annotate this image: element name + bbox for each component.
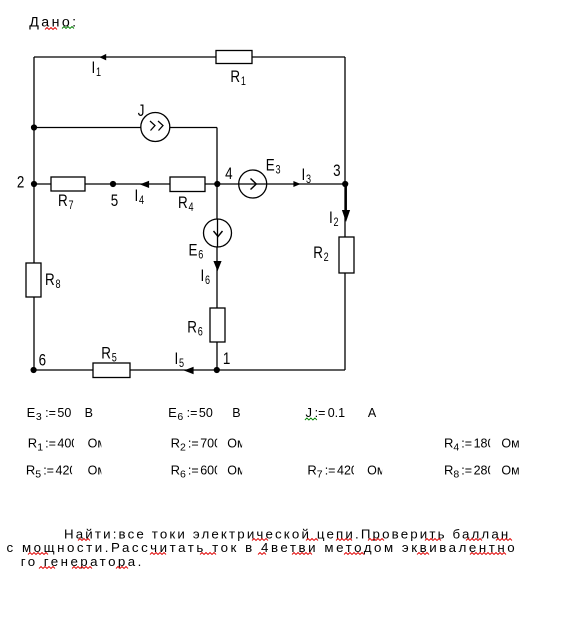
svg-text:R: R	[444, 463, 453, 478]
svg-text:5: 5	[179, 358, 184, 370]
svg-text:R: R	[187, 318, 197, 337]
node 1 junction dot	[214, 367, 220, 373]
svg-text::=: :=	[187, 406, 198, 420]
svg-text:1: 1	[223, 350, 230, 369]
resistor R4	[170, 177, 205, 214]
value R7 := 420 Ом	[307, 463, 392, 481]
svg-text:R: R	[28, 436, 37, 451]
svg-text:7: 7	[68, 200, 73, 212]
svg-text:6: 6	[198, 250, 203, 262]
svg-text::=: :=	[43, 464, 54, 478]
svg-text:R: R	[45, 271, 55, 290]
text "Дано:"	[29, 15, 78, 31]
svg-text:R: R	[178, 194, 188, 213]
wire J-branch horizontal	[34, 127, 217, 129]
wire J-branch vertical down to node 4	[216, 128, 218, 185]
svg-text::=: :=	[45, 406, 56, 420]
svg-text:1: 1	[241, 76, 246, 88]
value R2 := 700 Ом	[171, 436, 253, 454]
spellcheck squiggles on paragraph	[28, 539, 512, 569]
node 2 junction dot	[31, 181, 37, 187]
svg-text:1: 1	[96, 67, 101, 79]
current arrow I5	[175, 349, 194, 374]
svg-text:3: 3	[276, 165, 281, 177]
svg-text:0.1: 0.1	[328, 406, 345, 420]
svg-text:I: I	[329, 209, 333, 228]
svg-text::=: :=	[315, 406, 326, 420]
svg-text:R: R	[230, 68, 240, 87]
value R4 := 180 Ом	[444, 436, 529, 454]
svg-text:А: А	[368, 406, 377, 420]
svg-text:В: В	[85, 406, 93, 420]
value R5 := 420 Ом	[26, 463, 111, 481]
node label 2	[17, 173, 24, 192]
wire middle (node 2 - node 5 - node 4 - node 3)	[34, 183, 345, 185]
svg-text:с мощности.Рассчитать ток в 4в: с мощности.Рассчитать ток в 4ветви метод…	[7, 540, 518, 555]
current source J	[138, 102, 170, 142]
svg-text:2: 2	[180, 442, 186, 454]
svg-text:I: I	[92, 58, 96, 77]
node label 1	[223, 350, 230, 369]
svg-text::=: :=	[461, 437, 472, 451]
resistor R1	[216, 51, 252, 89]
wire E6 branch (node 4 down to node 1)	[216, 184, 218, 370]
value E6 := 50 В	[168, 405, 241, 423]
svg-text:I: I	[135, 186, 139, 205]
svg-text:R: R	[58, 192, 68, 211]
node label 4	[225, 165, 233, 184]
svg-text::=: :=	[461, 464, 472, 478]
svg-text:I: I	[201, 267, 205, 286]
current arrow I4	[135, 181, 150, 207]
current arrow I2 (bold)	[329, 184, 350, 229]
svg-text:1: 1	[37, 442, 43, 454]
resistor R6	[187, 308, 225, 342]
svg-text:3: 3	[333, 161, 340, 180]
svg-text:E: E	[168, 405, 177, 420]
value R1 := 400 Ом	[28, 436, 112, 454]
svg-text:4: 4	[453, 442, 459, 454]
node 5 junction dot	[110, 181, 116, 187]
node 6 junction dot	[30, 367, 36, 373]
svg-text:3: 3	[306, 174, 311, 186]
svg-text:4: 4	[188, 202, 193, 214]
svg-text:R: R	[171, 463, 180, 478]
svg-text:2: 2	[334, 217, 339, 229]
svg-text:6: 6	[180, 469, 186, 481]
svg-text:4: 4	[225, 165, 233, 184]
svg-text::=: :=	[45, 437, 56, 451]
svg-text::=: :=	[188, 464, 199, 478]
svg-text:3: 3	[36, 411, 42, 423]
svg-text:6: 6	[198, 326, 203, 338]
value R6 := 600 Ом	[171, 463, 253, 481]
value E3 := 50 В	[27, 405, 93, 423]
wire right lower (node 3 to bottom corner through R2)	[344, 184, 346, 370]
current arrow I1	[92, 54, 107, 79]
resistor R2	[313, 237, 354, 273]
svg-text:E: E	[189, 241, 198, 260]
svg-text:В: В	[232, 406, 240, 420]
svg-text:J: J	[138, 102, 145, 121]
svg-text:R: R	[444, 436, 453, 451]
node 4 junction dot	[214, 181, 220, 187]
current arrow I6 (bold)	[201, 261, 222, 288]
svg-text:6: 6	[39, 351, 46, 370]
EMF source E3	[239, 156, 281, 198]
svg-text:E: E	[266, 156, 275, 175]
svg-text:R: R	[313, 244, 323, 263]
svg-text:I: I	[302, 165, 306, 184]
svg-text:50: 50	[199, 406, 213, 420]
svg-text:R: R	[307, 463, 316, 478]
svg-text:5: 5	[35, 469, 41, 481]
resistor R7	[51, 177, 85, 213]
svg-text:I: I	[175, 349, 179, 368]
svg-text:50: 50	[57, 406, 71, 420]
EMF source E6	[189, 219, 232, 262]
svg-text:2: 2	[324, 252, 329, 264]
wire left (x=34, top corner to node 6)	[33, 57, 35, 370]
svg-text:8: 8	[453, 469, 459, 481]
svg-text:6: 6	[177, 411, 183, 423]
svg-text:6: 6	[205, 275, 210, 287]
node junction dot on J-branch at left wire	[31, 124, 37, 130]
node 3 junction dot	[342, 181, 348, 187]
wire top (node2-corner to node3-corner)	[34, 56, 345, 58]
wire right upper (top corner to node 3)	[344, 57, 346, 184]
svg-text:Ом: Ом	[501, 437, 519, 451]
svg-text:2: 2	[17, 173, 24, 192]
svg-text:5: 5	[112, 352, 117, 364]
wire bottom (node 6 to bottom right corner)	[34, 369, 345, 371]
resistor R8	[26, 263, 61, 297]
svg-text::=: :=	[188, 437, 199, 451]
svg-text:R: R	[171, 436, 180, 451]
svg-text:E: E	[27, 405, 36, 420]
svg-text:4: 4	[139, 195, 144, 207]
node label 3	[333, 161, 340, 180]
svg-text:5: 5	[111, 192, 118, 211]
value R8 := 280 Ом	[444, 463, 529, 481]
svg-text:7: 7	[317, 469, 323, 481]
value J := 0.1 А	[305, 405, 377, 420]
node label 6	[39, 351, 46, 370]
current arrow I3	[293, 165, 311, 187]
svg-text:Ом: Ом	[501, 464, 519, 478]
svg-text:R: R	[101, 344, 111, 363]
resistor R5	[93, 344, 130, 378]
svg-text:R: R	[26, 463, 35, 478]
svg-text::=: :=	[325, 464, 336, 478]
node label 5	[111, 192, 118, 211]
svg-text:8: 8	[55, 279, 60, 291]
